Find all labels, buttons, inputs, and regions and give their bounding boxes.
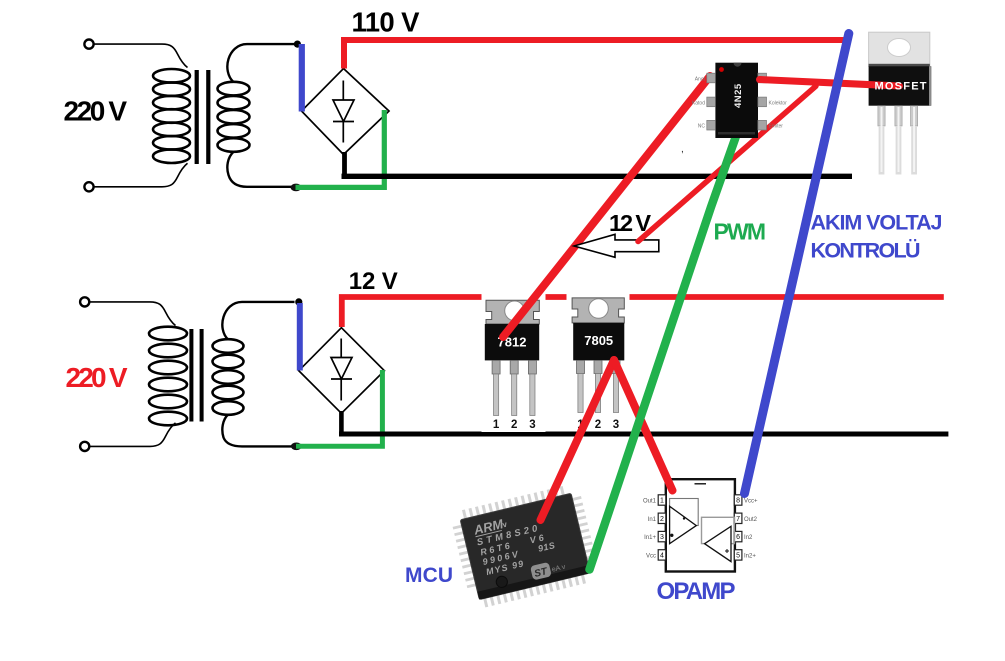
wire red A: optocoupler to 7812 xyxy=(503,76,710,337)
svg-text:Katod: Katod xyxy=(692,101,705,107)
regulator U1 7812 xyxy=(485,300,540,431)
svg-text:In2+: In2+ xyxy=(744,553,756,559)
wire T1 secondary top xyxy=(227,44,295,82)
svg-text:In2: In2 xyxy=(744,535,753,541)
U4 pins left xyxy=(457,526,472,590)
svg-text:OPAMP: OPAMP xyxy=(657,578,736,605)
regulator U5 7805 xyxy=(572,298,624,431)
svg-text:7805: 7805 xyxy=(584,333,613,348)
op-amp U3 pinout diagram xyxy=(643,479,758,571)
wire T2 secondary top xyxy=(222,302,294,340)
wire green F: PWM optocoupler to MCU xyxy=(590,122,742,570)
svg-text:MOSFET: MOSFET xyxy=(875,81,927,93)
wire green BR2 to T2 return xyxy=(296,370,382,446)
svg-text:Vcc: Vcc xyxy=(646,553,656,559)
regulator U1 7812 photo background xyxy=(482,293,546,432)
diode D2 (inside BR2) xyxy=(331,339,352,401)
svg-text:6: 6 xyxy=(736,534,740,541)
wire blue T1 to BR1 xyxy=(299,44,305,112)
svg-text:2: 2 xyxy=(511,419,517,431)
svg-text:KONTROLÜ: KONTROLÜ xyxy=(811,238,921,263)
svg-text:4N25: 4N25 xyxy=(733,83,744,108)
svg-text:7: 7 xyxy=(736,516,740,523)
node terminal under green (T1) xyxy=(291,184,302,192)
U3 left pin boxes 1-4 xyxy=(658,495,666,560)
U5 pin numbers 1 2 3 xyxy=(577,419,619,431)
svg-text:PWM: PWM xyxy=(714,218,767,244)
transistor Q1 MOSFET photo xyxy=(869,32,932,174)
T1 primary terminal top xyxy=(84,40,93,49)
svg-text:220 V: 220 V xyxy=(64,95,128,126)
wire T1 primary bottom xyxy=(94,163,188,187)
svg-text:In1: In1 xyxy=(648,517,657,523)
Q1 legs xyxy=(878,106,918,126)
node T1 secondary top xyxy=(294,41,301,48)
wire red D: 7805 to MCU xyxy=(541,360,615,520)
wire blue: 110V bus to OPAMP (AKIM VOLTAJ KONTROLU) xyxy=(745,34,849,494)
svg-text:2: 2 xyxy=(595,419,601,431)
svg-text:Kolektor: Kolektor xyxy=(769,101,788,107)
T2 primary terminal top xyxy=(80,297,89,306)
wire black bottom bus vertical xyxy=(339,411,344,434)
U3 pin labels xyxy=(643,499,657,560)
T2 primary winding xyxy=(149,327,187,426)
T2 primary terminal bottom xyxy=(80,442,89,451)
bridge rectifier BR2 xyxy=(299,328,385,414)
U4 pins right xyxy=(577,497,592,561)
diode D1 (inside BR1) xyxy=(333,81,354,143)
U4 pins bottom xyxy=(484,578,587,603)
svg-text:MCU: MCU xyxy=(405,564,453,587)
svg-text:AKIM VOLTAJ: AKIM VOLTAJ xyxy=(811,211,943,235)
T2 secondary winding xyxy=(213,339,244,415)
wire blue T2 to BR2 xyxy=(297,303,303,371)
svg-text:1: 1 xyxy=(493,419,500,431)
svg-text:12 V: 12 V xyxy=(349,268,398,295)
wire red C: MOSFET junction to 12V arrow xyxy=(638,86,816,242)
wire black top bus vertical xyxy=(342,152,347,176)
svg-text:2: 2 xyxy=(660,516,664,523)
IC U4 MCU photo (STM8 QFP64) xyxy=(455,488,596,605)
node terminal under green (T2) xyxy=(291,443,302,451)
regulator U5 7805 photo background xyxy=(567,293,630,431)
U1 pin numbers 1 2 3 xyxy=(493,419,536,431)
U2 pin labels xyxy=(692,77,706,130)
svg-text:4: 4 xyxy=(660,553,664,560)
svg-text:8: 8 xyxy=(736,498,740,505)
T2 core xyxy=(189,329,193,422)
T1 secondary winding xyxy=(218,82,250,152)
svg-text:3: 3 xyxy=(613,419,619,431)
wire T1 primary top xyxy=(94,44,188,67)
arrow 12V pointing left xyxy=(574,234,659,257)
svg-text:5: 5 xyxy=(736,553,740,560)
wire red B: optocoupler to MOSFET xyxy=(760,80,900,87)
svg-text:220 V: 220 V xyxy=(66,362,128,393)
U4 ST logo xyxy=(530,562,552,581)
svg-text:Vcc+: Vcc+ xyxy=(744,499,758,505)
svg-text:,: , xyxy=(681,144,684,155)
optocoupler U2 4N25 xyxy=(681,63,787,155)
svg-text:In1+: In1+ xyxy=(644,535,656,541)
T1 primary winding xyxy=(153,69,190,163)
wire red E: 7805 to OPAMP xyxy=(614,360,673,491)
U2 pins xyxy=(707,73,767,130)
svg-text:Out1: Out1 xyxy=(643,499,657,505)
wire 12V bus (red) xyxy=(342,297,944,327)
U3 right pin boxes 8-5 xyxy=(734,495,742,560)
U4 pins top xyxy=(463,490,566,515)
wire black top bus xyxy=(342,174,853,179)
wire T2 primary bottom xyxy=(89,423,175,447)
svg-text:Emiter: Emiter xyxy=(769,124,784,130)
svg-text:1: 1 xyxy=(660,498,664,505)
bridge rectifier BR1 xyxy=(302,69,390,155)
svg-text:Anot: Anot xyxy=(695,77,706,83)
transformer T2 (220V/12V) xyxy=(80,297,302,451)
wire T2 secondary bottom xyxy=(222,415,293,447)
wire green BR1 to T1 return xyxy=(296,110,385,187)
U3 op-amp B xyxy=(705,526,731,561)
svg-text:110 V: 110 V xyxy=(352,7,421,38)
U4 pin1 dimple xyxy=(495,575,509,589)
U3 op-amp A routing xyxy=(670,499,699,526)
svg-text:3: 3 xyxy=(529,419,535,431)
U3 op-amp B routing xyxy=(702,517,735,543)
svg-text:3: 3 xyxy=(660,534,664,541)
node T2 secondary top xyxy=(295,298,302,305)
U3 op-amp A xyxy=(670,506,697,543)
wire 110V bus (red) xyxy=(344,40,849,69)
svg-text:NC: NC xyxy=(698,124,706,130)
T1 core xyxy=(195,70,199,164)
U4 body xyxy=(460,493,590,599)
wire T1 secondary bottom xyxy=(227,152,294,187)
transformer T1 (220V/110V) xyxy=(84,40,301,192)
wire black bottom bus xyxy=(339,432,948,437)
T1 primary terminal bottom xyxy=(84,182,93,191)
svg-text:Out2: Out2 xyxy=(744,517,758,523)
U4 markings xyxy=(471,506,558,578)
wire T2 primary top xyxy=(89,302,175,326)
